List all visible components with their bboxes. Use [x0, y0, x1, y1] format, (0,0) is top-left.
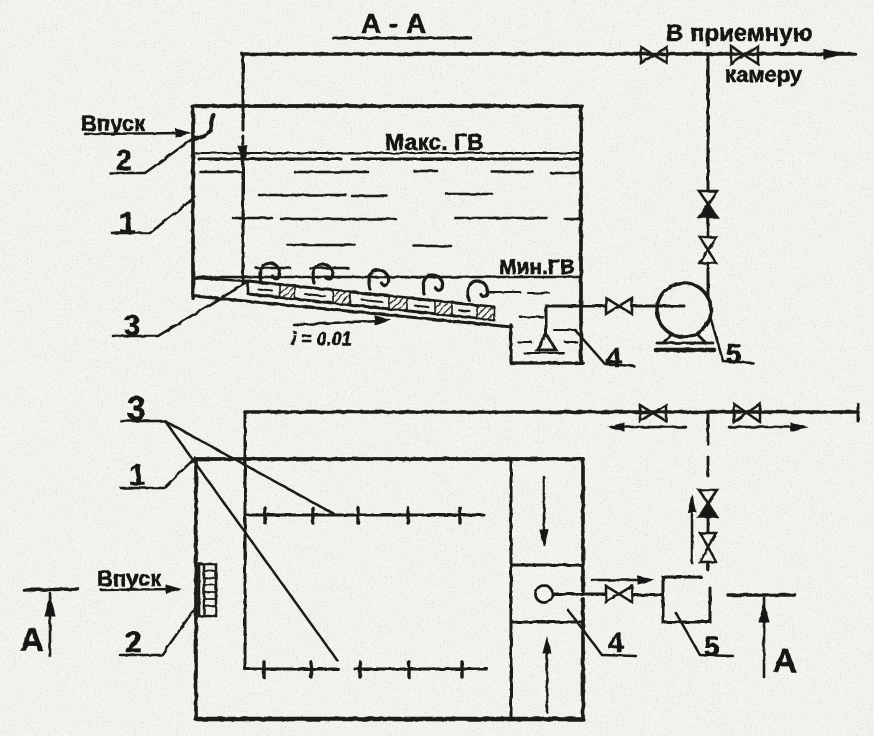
min water level line	[196, 276, 580, 279]
svg-text:5: 5	[704, 631, 720, 662]
valve V1 on discharge pipe	[641, 47, 667, 63]
slope arrow and label i=0.01	[291, 316, 390, 349]
svg-text:Впуск: Впуск	[97, 566, 162, 591]
label: Впуск (section) with arrow	[81, 111, 190, 137]
check valve V4 (bottom filled) on vertical pipe	[699, 191, 717, 217]
svg-text:1: 1	[119, 207, 136, 240]
svg-text:Макс. ГВ: Макс. ГВ	[385, 129, 484, 155]
label 3 (section) with leader	[113, 283, 246, 342]
label 5 (plan) with leader	[676, 613, 733, 662]
label 5 (section) with leader	[710, 316, 753, 369]
valve V3 on suction pipe	[606, 298, 632, 314]
chamber divider lower	[511, 621, 583, 624]
inlet pipe 2 (hook)	[195, 115, 214, 139]
svg-text:4: 4	[606, 342, 622, 373]
max water level line	[196, 153, 580, 159]
sump pit walls	[511, 325, 583, 363]
svg-text:i = 0.01: i = 0.01	[291, 329, 352, 349]
pump discharge pipe (plan, dashed)	[707, 413, 710, 570]
label 4 (section) with leader	[575, 330, 634, 373]
tank floor outer line	[194, 296, 512, 327]
valve V2 on discharge pipe	[731, 46, 758, 64]
sump water dashes	[489, 292, 577, 353]
label 1 (section) with leader	[112, 197, 195, 240]
lower perforated lateral (plan)	[245, 662, 487, 677]
pipe valve to pump	[632, 305, 684, 308]
tank 1 walls (section)	[192, 106, 582, 363]
suction chamber partition	[510, 459, 513, 719]
svg-text:5: 5	[726, 338, 742, 369]
gate valve V5 on vertical pipe	[700, 237, 716, 263]
hatched openings of perforated pipe	[280, 284, 494, 320]
svg-text:4: 4	[608, 627, 624, 658]
plan riser/manifold pipe	[244, 412, 247, 669]
pump base	[656, 334, 714, 350]
label: Впуск (plan) with arrow	[97, 566, 180, 593]
section marker A left	[20, 589, 78, 658]
svg-text:А - А: А - А	[361, 8, 426, 39]
label: В приемную камеру	[666, 20, 813, 87]
pump suction port (circle) in middle cell	[536, 586, 553, 603]
pump 5 box (plan)	[663, 577, 710, 622]
svg-text:Впуск: Впуск	[81, 111, 146, 136]
label 4 (plan) with leader	[568, 610, 636, 658]
tank inner floor left	[194, 278, 247, 281]
valve V7 on plan pipe	[734, 404, 760, 422]
label 3 (plan) with two leaders	[121, 390, 337, 660]
water jet curls over perforations	[260, 263, 488, 300]
suction bell mouth 4	[537, 306, 556, 350]
label 1 (plan) with leader	[121, 458, 195, 492]
valve V8 (plan suction)	[606, 586, 632, 602]
svg-text:А: А	[20, 621, 44, 658]
flow arrow above suction pipe	[592, 576, 653, 584]
check valve V9 (plan, bottom filled)	[699, 490, 717, 517]
label 2 (section) with leader	[110, 137, 195, 177]
svg-text:Мин.ГВ: Мин.ГВ	[499, 256, 575, 279]
section title A-A	[333, 8, 471, 39]
suction pipe to pump	[546, 305, 605, 308]
inlet screen 2 (plan)	[199, 564, 216, 616]
pipe valve to pump box	[632, 594, 662, 597]
up flow arrow in bottom cell	[543, 638, 551, 712]
perforated pipe 3 on sloped floor (section)	[248, 281, 494, 320]
section marker A right	[728, 595, 797, 679]
gate valve V10 (plan)	[700, 533, 716, 562]
down flow arrow in top cell	[540, 477, 548, 546]
suction pipe (plan)	[553, 593, 605, 596]
flow arrow left under pipe	[609, 423, 686, 431]
water surface dashes	[200, 171, 579, 268]
label 2 (plan) with leader	[120, 604, 198, 659]
svg-text:А: А	[773, 642, 797, 679]
svg-text:3: 3	[127, 390, 146, 428]
tank walls (plan)	[196, 459, 583, 719]
up flow arrow beside valves	[688, 495, 696, 563]
chamber divider upper	[511, 564, 583, 567]
discharge pipe to receiving chamber	[242, 50, 855, 59]
dashes inside open cells	[258, 289, 470, 312]
pump 5 (circle)	[657, 283, 711, 337]
pump discharge vertical pipe (section)	[707, 54, 710, 296]
plan discharge pipe	[245, 404, 858, 421]
riser pipe from perforated pipe to discharge	[240, 54, 247, 284]
svg-text:В приемную: В приемную	[666, 20, 813, 47]
upper perforated lateral (plan)	[247, 508, 484, 523]
valve V6 on plan pipe	[640, 405, 666, 421]
flow arrow right under pipe	[729, 423, 806, 431]
svg-text:камеру: камеру	[725, 62, 803, 87]
